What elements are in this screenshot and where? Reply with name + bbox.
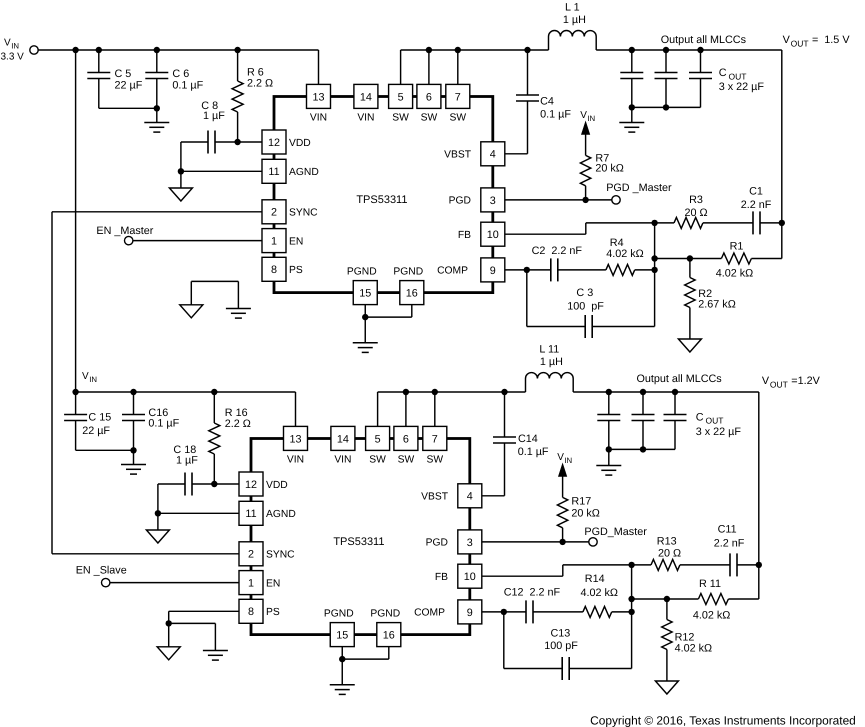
- svg-text:V: V: [783, 34, 791, 46]
- resistor R14 4.02 kohm: [533, 573, 632, 618]
- svg-text:VBST: VBST: [421, 492, 449, 503]
- U1 pin 16 (PGND): [393, 267, 423, 305]
- ground: [353, 343, 378, 353]
- U2 pin 2 (SYNC): [239, 542, 295, 566]
- resistor R11 4.02 kohm: [632, 578, 759, 621]
- svg-text:4: 4: [467, 491, 473, 503]
- svg-text:6: 6: [403, 433, 409, 445]
- wire EN to pin 1: [133, 240, 262, 242]
- inductor L1 1 uH: [549, 1, 597, 50]
- wire AGND pin 11 slave: [158, 513, 239, 530]
- U1 pin 2 (SYNC): [262, 200, 318, 224]
- U2 pin 11 (AGND): [239, 501, 296, 525]
- junction COUT slave: [606, 389, 612, 395]
- svg-text:FB: FB: [435, 572, 448, 583]
- svg-text:SW: SW: [427, 455, 444, 466]
- wire SW risers slave: [378, 392, 435, 426]
- svg-text:R3: R3: [689, 194, 703, 206]
- ground: [619, 123, 644, 133]
- capacitor C2 2.2 nF: [527, 245, 583, 281]
- junction FB node slave: [628, 562, 634, 568]
- svg-text:VDD: VDD: [266, 480, 288, 491]
- svg-text:COMP: COMP: [414, 608, 445, 619]
- resistor R3 20 ohm: [655, 194, 754, 228]
- wire FB vertical: [654, 223, 656, 327]
- wire VOUT bus slave: [573, 392, 759, 599]
- svg-text:VDD: VDD: [289, 138, 311, 149]
- junction R12 tap: [664, 596, 670, 602]
- svg-text:VIN: VIN: [357, 113, 374, 124]
- svg-text:V: V: [557, 452, 564, 463]
- junction COUT: [697, 47, 703, 53]
- junction SW slave: [403, 389, 409, 395]
- svg-text:0.1 µF: 0.1 µF: [518, 446, 549, 458]
- node VIN input terminal 3.3 V: [1, 37, 39, 62]
- wire COUT ground bus: [629, 104, 701, 122]
- U2 pin 4 (VBST): [421, 484, 482, 508]
- junction R6: [234, 47, 240, 53]
- U1 pin 5 (SW): [389, 84, 413, 123]
- wire VBST pin 4 to C4: [505, 153, 528, 155]
- wire VIN rail: [38, 50, 318, 84]
- capacitor C5 22 uF: [87, 50, 142, 108]
- svg-text:1 µH: 1 µH: [540, 356, 563, 368]
- svg-text:C 15: C 15: [88, 411, 111, 423]
- ground: [655, 681, 678, 694]
- svg-text:PGND: PGND: [324, 609, 354, 620]
- svg-text:V: V: [4, 37, 11, 48]
- junction R1 tap: [651, 255, 657, 261]
- svg-text:EN: EN: [289, 236, 303, 247]
- svg-text:15: 15: [336, 630, 348, 642]
- resistor R6 2.2 ohm: [232, 50, 273, 142]
- svg-text:C: C: [696, 411, 704, 423]
- wire FB vertical slave: [631, 565, 633, 669]
- U1 pin 7 (SW): [446, 84, 470, 123]
- svg-text:13: 13: [312, 91, 324, 103]
- svg-text:SW: SW: [450, 113, 467, 124]
- junction VDD node slave: [211, 481, 217, 487]
- node Output all MLCCs label slave: [636, 373, 722, 385]
- U2 pin 9 (COMP): [414, 600, 482, 624]
- svg-text:R 11: R 11: [699, 578, 721, 590]
- svg-text:12: 12: [245, 479, 257, 491]
- svg-text:8: 8: [248, 606, 254, 618]
- svg-text:IN: IN: [587, 114, 595, 123]
- wire VBST pin 4 to C14: [482, 495, 505, 497]
- U2 pin 13 (VIN): [284, 426, 308, 465]
- svg-text:SYNC: SYNC: [289, 208, 318, 219]
- svg-text:20 Ω: 20 Ω: [684, 207, 707, 219]
- svg-text:0.1 µF: 0.1 µF: [172, 79, 203, 91]
- junction C5: [96, 47, 102, 53]
- svg-text:16: 16: [383, 630, 395, 642]
- svg-text:10: 10: [464, 571, 476, 583]
- capacitor C8 1 uF: [181, 100, 238, 154]
- svg-text:OUT: OUT: [706, 416, 724, 426]
- power VIN arrow slave: [557, 452, 572, 477]
- wire PGD row: [505, 197, 612, 203]
- svg-text:C14: C14: [518, 433, 538, 445]
- svg-text:PS: PS: [289, 265, 303, 276]
- junction C6: [154, 47, 160, 53]
- svg-text:VBST: VBST: [444, 150, 472, 161]
- U1 pin 11 (AGND): [262, 159, 319, 183]
- svg-text:Copyright © 2016, Texas Instru: Copyright © 2016, Texas Instruments Inco…: [590, 714, 856, 727]
- junction COUT slave: [672, 389, 678, 395]
- wire VOUT bus: [596, 50, 782, 259]
- svg-text:1: 1: [248, 578, 254, 590]
- svg-text:EN: EN: [266, 578, 280, 589]
- ground: [169, 188, 192, 201]
- U2 pin 14 (VIN): [331, 426, 355, 465]
- svg-text:2.2 nF: 2.2 nF: [741, 199, 772, 211]
- capacitor COUT 3 x 22 uF: [620, 50, 764, 107]
- wire C8 to AGND: [178, 142, 184, 175]
- svg-text:OUT: OUT: [770, 380, 788, 390]
- U1 pin 10 (FB): [458, 222, 505, 246]
- svg-text:7: 7: [432, 433, 438, 445]
- node EN_Slave terminal: [76, 565, 127, 587]
- U1 pin 6 (SW): [417, 84, 441, 123]
- junction VIN feed slave: [72, 389, 78, 395]
- U2 pin 1 (EN): [239, 571, 280, 595]
- svg-text:AGND: AGND: [266, 509, 296, 520]
- U1 pin 15 (PGND): [347, 267, 377, 305]
- svg-text:C 6: C 6: [172, 68, 189, 80]
- svg-text:2: 2: [248, 549, 254, 561]
- copyright text: [590, 714, 856, 727]
- capacitor C6 0.1 uF: [145, 50, 203, 108]
- ground: [144, 123, 169, 133]
- svg-text:1: 1: [271, 236, 277, 248]
- junction VOUT rail slave: [756, 562, 762, 568]
- wire EN to pin 1 slave: [110, 582, 239, 584]
- svg-text:Output all MLCCs: Output all MLCCs: [636, 373, 722, 385]
- svg-text:L 1: L 1: [565, 1, 580, 13]
- svg-text:4.02 kΩ: 4.02 kΩ: [693, 609, 730, 621]
- capacitor COUT 3 x 22 uF slave: [597, 392, 741, 449]
- capacitor C18 1 uF: [158, 444, 214, 495]
- svg-text:4.02 kΩ: 4.02 kΩ: [606, 248, 643, 260]
- svg-text:0.1 µF: 0.1 µF: [540, 108, 571, 120]
- U2 pin 6 (SW): [394, 426, 418, 465]
- svg-text:11: 11: [245, 508, 256, 520]
- svg-text:12: 12: [268, 137, 280, 149]
- U1 pin 1 (EN): [262, 229, 303, 253]
- junction FB node: [651, 220, 657, 226]
- U1 pin 3 (PGD): [449, 188, 505, 212]
- wire C18 to AGND slave: [155, 484, 161, 517]
- ground: [121, 465, 146, 475]
- resistor R4 4.02 kohm: [557, 237, 654, 275]
- svg-text:C11: C11: [718, 524, 737, 536]
- U2 pin 15 (PGND): [324, 609, 354, 647]
- junction COMP-R4 node: [651, 267, 657, 273]
- svg-text:SW: SW: [398, 455, 415, 466]
- svg-text:IN: IN: [564, 456, 572, 465]
- U2 pin 12 (VDD): [239, 472, 288, 496]
- wire AGND pin 11: [181, 171, 262, 188]
- svg-text:FB: FB: [458, 230, 471, 241]
- junction SW slave: [432, 389, 438, 395]
- svg-text:16: 16: [406, 288, 418, 300]
- svg-text:15: 15: [359, 288, 371, 300]
- U1 pin 9 (COMP): [437, 258, 505, 282]
- svg-text:AGND: AGND: [289, 167, 319, 178]
- svg-text:20 Ω: 20 Ω: [658, 547, 681, 559]
- capacitor C14 0.1 uF: [493, 392, 549, 496]
- capacitor C12 2.2 nF: [504, 587, 561, 624]
- svg-text:VIN: VIN: [334, 455, 351, 466]
- capacitor C15 22 uF: [64, 392, 111, 450]
- svg-text:PGD: PGD: [449, 196, 471, 207]
- svg-text:1 µF: 1 µF: [203, 110, 225, 122]
- junction C4: [524, 47, 530, 53]
- svg-text:R13: R13: [657, 535, 677, 547]
- wire SYNC net master-slave: [52, 212, 262, 554]
- svg-text:V: V: [762, 375, 770, 387]
- svg-text:SW: SW: [421, 113, 438, 124]
- svg-text:C 5: C 5: [115, 68, 132, 80]
- wire C15-C16 ground bus: [76, 447, 137, 464]
- svg-text:TPS53311: TPS53311: [356, 194, 407, 206]
- svg-text:7: 7: [455, 91, 461, 103]
- svg-text:PGD_Master: PGD_Master: [584, 526, 647, 538]
- junction R2 tap: [687, 255, 693, 261]
- svg-text:OUT: OUT: [791, 39, 809, 49]
- ground: [157, 647, 180, 660]
- junction SW: [426, 47, 432, 53]
- svg-text:IN: IN: [11, 41, 19, 50]
- svg-text:3 x 22 µF: 3 x 22 µF: [696, 426, 742, 438]
- svg-text:=1.2V: =1.2V: [791, 375, 820, 387]
- wire VIN rail slave: [76, 392, 296, 426]
- op-amp U1 TPS53311 body: [274, 97, 493, 293]
- svg-text:20 kΩ: 20 kΩ: [595, 163, 623, 175]
- capacitor C11 2.2 nF: [714, 524, 759, 577]
- ground: [596, 466, 621, 476]
- capacitor C1 2.2 nF: [741, 185, 782, 234]
- svg-text:OUT: OUT: [729, 71, 747, 81]
- svg-text:20 kΩ: 20 kΩ: [571, 508, 599, 520]
- svg-text:COMP: COMP: [437, 266, 468, 277]
- resistor R16 2.2 ohm: [209, 392, 251, 484]
- node Output all MLCCs label: [661, 34, 747, 46]
- svg-text:4.02 kΩ: 4.02 kΩ: [580, 587, 617, 599]
- junction R16: [211, 389, 217, 395]
- resistor R2 2.67 kohm: [685, 259, 736, 340]
- junction COUT: [629, 47, 635, 53]
- svg-text:R 6: R 6: [247, 67, 264, 79]
- wire VDD to pin 12: [238, 141, 262, 143]
- ground: [330, 685, 355, 695]
- svg-text:3: 3: [490, 195, 496, 207]
- svg-text:PGND: PGND: [347, 267, 377, 278]
- svg-text:V: V: [82, 371, 89, 382]
- wire FB row slave: [482, 565, 632, 576]
- svg-text:9: 9: [467, 607, 473, 619]
- ground: [226, 309, 251, 319]
- svg-text:C12 2.2 nF: C12 2.2 nF: [504, 587, 561, 599]
- junction C16: [130, 389, 136, 395]
- svg-text:Output all MLCCs: Output all MLCCs: [661, 34, 747, 46]
- node VIN label slave: [82, 371, 97, 384]
- wire PGND pins to ground: [362, 305, 412, 343]
- op-amp U2 TPS53311 body: [251, 439, 470, 635]
- svg-text:10: 10: [487, 229, 499, 241]
- U2 pin 5 (SW): [366, 426, 390, 465]
- svg-text:5: 5: [398, 91, 404, 103]
- svg-text:C2 2.2 nF: C2 2.2 nF: [532, 245, 583, 257]
- svg-text:11: 11: [268, 166, 279, 178]
- U1 pin 14 (VIN): [354, 84, 378, 123]
- svg-text:R14: R14: [585, 573, 605, 585]
- wire COUT ground bus slave: [606, 446, 675, 465]
- resistor R12 4.02 kohm: [662, 599, 712, 681]
- junction C14: [501, 389, 507, 395]
- svg-text:4: 4: [490, 149, 496, 161]
- capacitor C3 100 pF: [527, 270, 655, 338]
- svg-text:22 µF: 22 µF: [115, 79, 143, 91]
- ground: [203, 651, 228, 661]
- svg-text:C13: C13: [550, 628, 570, 640]
- node EN_Master terminal: [96, 225, 153, 245]
- capacitor C13 100 pF: [504, 612, 632, 680]
- svg-text:13: 13: [289, 433, 301, 445]
- node VOUT = 1.2 V label: [762, 375, 821, 390]
- resistor R1 4.02 kohm: [655, 241, 782, 280]
- U1 pin 8 (PS): [262, 257, 303, 281]
- svg-text:2: 2: [271, 207, 277, 219]
- wire PGD row slave: [482, 539, 589, 545]
- svg-text:9: 9: [490, 265, 496, 277]
- junction SW: [455, 47, 461, 53]
- svg-text:8: 8: [271, 264, 277, 276]
- wire C5-C6 ground bus: [99, 105, 160, 122]
- U2 pin 16 (PGND): [370, 609, 400, 647]
- inductor L11 1 uH: [526, 343, 574, 392]
- svg-text:TPS53311: TPS53311: [333, 536, 384, 548]
- U2 pin 7 (SW): [423, 426, 447, 465]
- junction COUT: [663, 47, 669, 53]
- svg-text:PGD _Master: PGD _Master: [606, 182, 672, 194]
- svg-text:V: V: [580, 110, 587, 121]
- svg-text:C 3: C 3: [576, 287, 593, 299]
- svg-text:2.2 Ω: 2.2 Ω: [247, 78, 273, 90]
- ground: [146, 530, 169, 543]
- svg-text:L 11: L 11: [539, 343, 559, 355]
- svg-text:PGND: PGND: [370, 609, 400, 620]
- wire SW bus: [401, 49, 549, 51]
- resistor R17 20 kohm: [557, 477, 599, 542]
- svg-text:PS: PS: [266, 607, 280, 618]
- wire FB row: [505, 223, 655, 234]
- junction R11 tap: [628, 596, 634, 602]
- svg-text:3: 3: [467, 537, 473, 549]
- svg-text:EN _Master: EN _Master: [96, 225, 153, 237]
- ground: [678, 339, 701, 352]
- svg-text:VIN: VIN: [310, 113, 327, 124]
- svg-text:5: 5: [375, 433, 381, 445]
- power VIN arrow: [580, 110, 595, 135]
- svg-text:R1: R1: [730, 241, 744, 253]
- wire PS pin to ground tie: [166, 611, 240, 650]
- node VOUT = 1.5 V label: [783, 34, 851, 49]
- wire PGND pins to ground slave: [339, 647, 389, 685]
- node PGD _Master terminal: [606, 182, 672, 204]
- wire SW bus slave: [378, 391, 526, 393]
- svg-text:3 x 22 µF: 3 x 22 µF: [719, 81, 765, 93]
- wire VIN feed to slave circuit: [75, 50, 77, 392]
- wire SYNC to pin 2 slave: [52, 553, 239, 555]
- wire COMP row: [505, 269, 527, 271]
- svg-text:14: 14: [360, 91, 372, 103]
- svg-text:C4: C4: [540, 96, 554, 108]
- junction VDD node: [234, 139, 240, 145]
- svg-text:2.2 nF: 2.2 nF: [714, 538, 745, 550]
- svg-text:SYNC: SYNC: [266, 550, 295, 561]
- svg-text:2.2 Ω: 2.2 Ω: [225, 418, 251, 430]
- junction COMP-R14 node: [628, 609, 634, 615]
- junction VOUT rail: [779, 220, 785, 226]
- U2 pin 10 (FB): [435, 564, 482, 588]
- junction VIN feed: [72, 47, 78, 53]
- svg-text:22 µF: 22 µF: [82, 425, 110, 437]
- svg-text:4.02 kΩ: 4.02 kΩ: [716, 267, 753, 279]
- svg-text:VIN: VIN: [287, 455, 304, 466]
- svg-text:100 pF: 100 pF: [567, 301, 604, 313]
- svg-text:1 µF: 1 µF: [176, 455, 198, 467]
- svg-text:3.3 V: 3.3 V: [1, 51, 25, 62]
- U1 pin 13 (VIN): [307, 84, 331, 123]
- svg-text:4.02 kΩ: 4.02 kΩ: [675, 643, 712, 655]
- U1 pin 4 (VBST): [444, 142, 505, 166]
- ground: [180, 305, 203, 318]
- svg-text:C: C: [719, 67, 727, 79]
- capacitor C4 0.1 uF: [516, 50, 571, 154]
- wire VDD to pin 12 slave: [214, 483, 239, 485]
- U1 pin 12 (VDD): [262, 130, 311, 154]
- junction COUT slave: [640, 389, 646, 395]
- node PGD_Master terminal slave: [584, 526, 647, 546]
- svg-text:PGND: PGND: [393, 267, 423, 278]
- svg-text:2.67 kΩ: 2.67 kΩ: [698, 299, 735, 311]
- svg-text:14: 14: [337, 433, 349, 445]
- svg-text:IN: IN: [89, 375, 97, 384]
- svg-text:PGD: PGD: [426, 538, 448, 549]
- svg-text:C1: C1: [749, 185, 763, 197]
- junction COMP node: [524, 267, 530, 273]
- svg-text:100 pF: 100 pF: [544, 640, 578, 652]
- wire analog ground tie: [191, 281, 238, 308]
- svg-text:6: 6: [426, 91, 432, 103]
- resistor R13 20 ohm: [632, 535, 731, 570]
- U2 pin 8 (PS): [239, 599, 280, 623]
- junction COMP node slave: [501, 609, 507, 615]
- U2 pin 3 (PGD): [426, 530, 482, 554]
- svg-text:EN _Slave: EN _Slave: [76, 565, 127, 577]
- svg-text:SW: SW: [392, 113, 409, 124]
- resistor R7 20 kohm: [580, 135, 623, 200]
- svg-text:SW: SW: [369, 455, 386, 466]
- wire SW risers: [401, 50, 458, 84]
- wire COMP row slave: [482, 611, 504, 613]
- capacitor C16 0.1 uF: [122, 392, 180, 450]
- svg-text:0.1 µF: 0.1 µF: [148, 418, 179, 430]
- svg-text:1 µH: 1 µH: [563, 14, 586, 26]
- svg-text:= 1.5 V: = 1.5 V: [812, 34, 850, 46]
